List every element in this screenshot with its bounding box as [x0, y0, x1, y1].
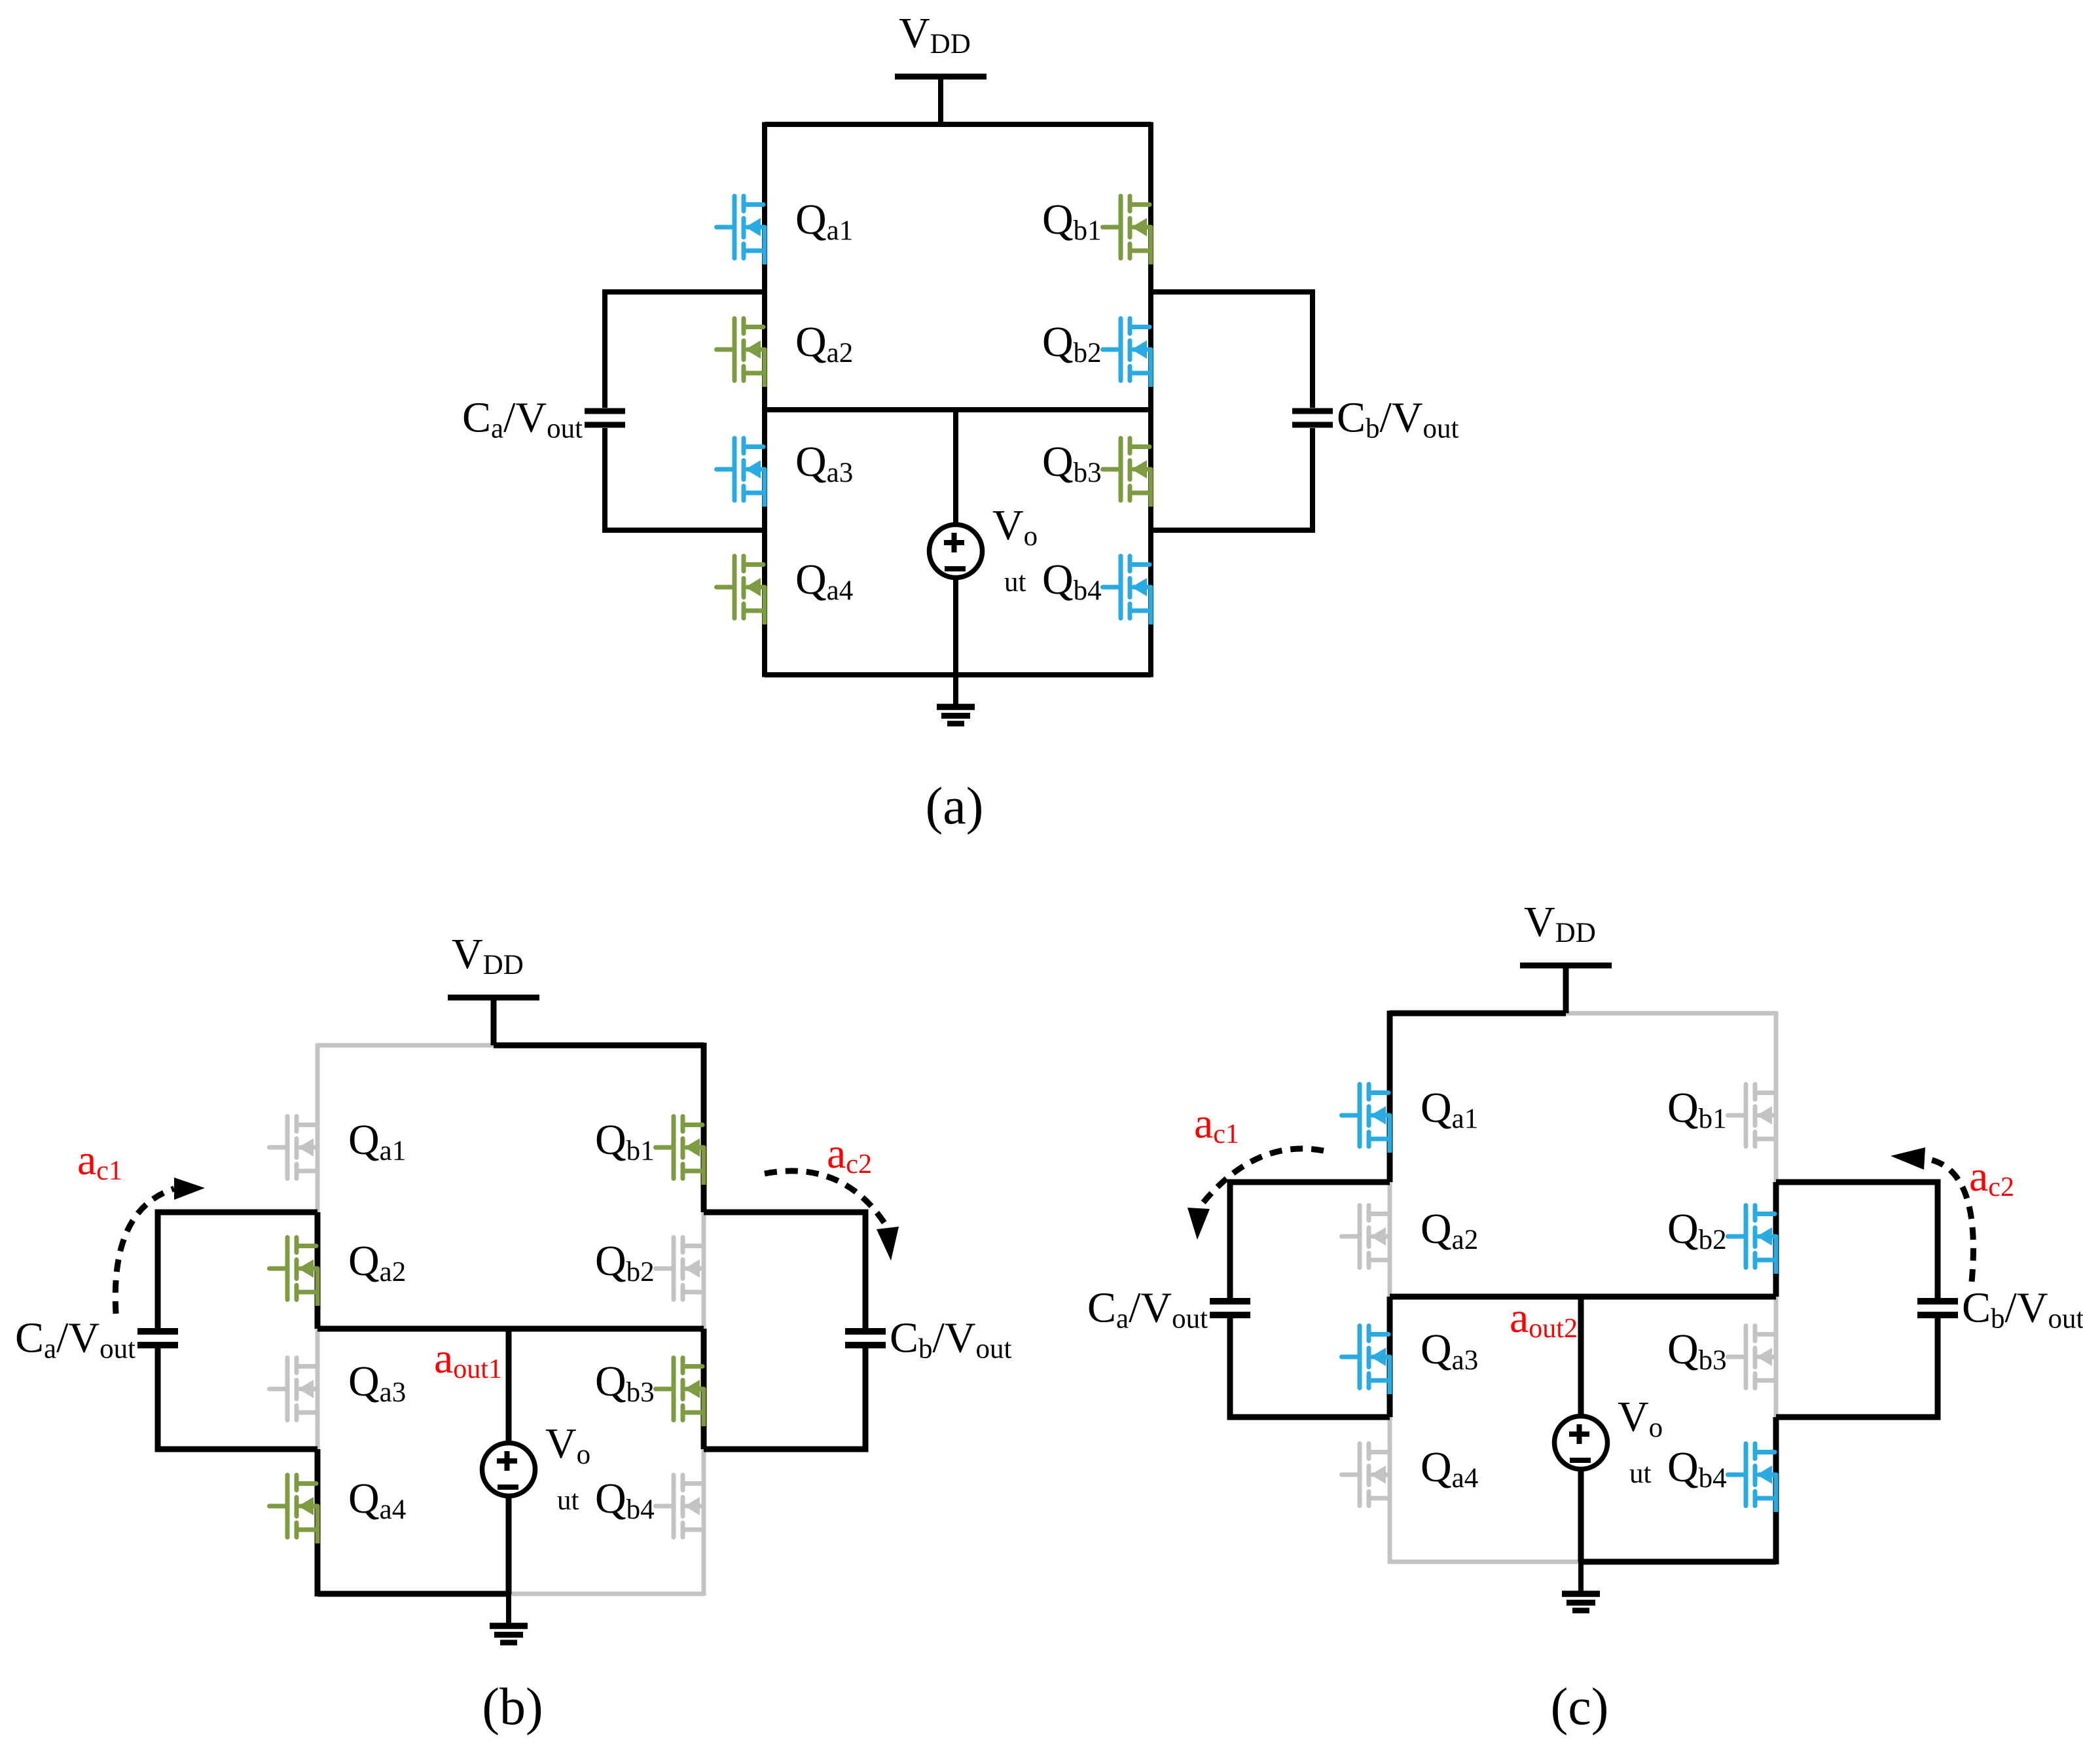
svg-text:ut: ut	[1629, 1458, 1652, 1489]
transistor Qa4	[717, 556, 765, 625]
wire top-left (a)	[765, 122, 941, 127]
wire bottom-right (a)	[956, 672, 1151, 677]
transistor Qa3	[1342, 1326, 1390, 1395]
wire left rail seg3 (c)	[1387, 1297, 1393, 1417]
wire left rail seg1 (b)	[316, 1043, 320, 1212]
transistor Qa2	[717, 319, 765, 387]
capacitor Cb (c)	[1917, 1182, 1958, 1417]
wire cap Cb lower link (b)	[704, 1447, 869, 1452]
wire right rail seg3 (a)	[1148, 410, 1153, 530]
transistor Qb2	[656, 1238, 704, 1306]
VDD supply	[448, 998, 539, 1045]
wire cap Ca upper link (c)	[1227, 1179, 1390, 1185]
wire right rail seg4 (a)	[1148, 530, 1153, 677]
ground	[937, 675, 975, 724]
wire right rail seg4 (b)	[702, 1449, 706, 1596]
wire left rail seg2 (b)	[315, 1212, 321, 1329]
wire left rail seg2 (a)	[762, 292, 767, 410]
wire top-right (c)	[1566, 1011, 1777, 1016]
svg-text:(b): (b)	[482, 1678, 543, 1736]
transistor Qb4	[656, 1475, 704, 1544]
ground	[1562, 1562, 1600, 1611]
transistor Qa4	[270, 1475, 318, 1544]
transistor Qa1	[1342, 1085, 1390, 1153]
wire cap Ca lower link (b)	[155, 1447, 318, 1452]
wire top-left (b)	[317, 1043, 494, 1048]
wire top-left (c)	[1390, 1011, 1567, 1017]
svg-text:ut: ut	[557, 1485, 579, 1516]
voltage source Vout (c)	[1555, 1297, 1608, 1562]
wire bottom-left (a)	[765, 672, 956, 677]
arrow ac1 (b)	[115, 1178, 205, 1314]
wire cap Cb upper link (c)	[1776, 1179, 1941, 1185]
transistor Qb3	[1103, 439, 1151, 507]
transistor Qb3	[656, 1358, 704, 1427]
transistor Qb1	[1728, 1085, 1777, 1153]
transistor Qb1	[1103, 196, 1151, 265]
transistor Qa4	[1342, 1444, 1390, 1513]
wire cap Cb upper link (a)	[1151, 289, 1315, 295]
transistor Qb4	[1728, 1444, 1777, 1513]
wire left rail seg4 (b)	[315, 1449, 321, 1596]
transistor Qa1	[270, 1117, 318, 1185]
arrow ac2 (c)	[1891, 1147, 1973, 1282]
wire top-right (b)	[494, 1043, 704, 1049]
wire right rail seg1 (b)	[701, 1043, 707, 1212]
wire mid node (a)	[765, 407, 1151, 412]
ground	[490, 1594, 528, 1643]
svg-text:ut: ut	[1004, 567, 1026, 598]
transistor Qa2	[270, 1238, 318, 1306]
wire right rail seg1 (a)	[1148, 122, 1153, 293]
wire top-right (a)	[941, 122, 1151, 127]
wire left rail seg3 (b)	[316, 1329, 320, 1449]
wire cap Ca lower link (c)	[1227, 1414, 1390, 1420]
arrow ac2 (b)	[765, 1171, 899, 1261]
wire cap Cb lower link (c)	[1776, 1414, 1941, 1420]
wire right rail seg4 (c)	[1773, 1417, 1779, 1564]
wire left rail seg4 (a)	[762, 530, 767, 677]
wire mid node (b)	[317, 1326, 704, 1332]
voltage source Vout (b)	[482, 1329, 535, 1594]
transistor Qa2	[1342, 1206, 1390, 1274]
wire right rail seg3 (c)	[1774, 1297, 1779, 1417]
arrow ac1 (c)	[1187, 1149, 1324, 1240]
transistor Qa3	[270, 1358, 318, 1427]
transistor Qa1	[717, 196, 765, 265]
wire bottom-right (b)	[509, 1592, 704, 1596]
wire mid node (c)	[1390, 1294, 1776, 1300]
wire cap Cb lower link (a)	[1151, 528, 1315, 533]
svg-text:(c): (c)	[1551, 1678, 1609, 1736]
wire cap Ca upper link (a)	[602, 289, 765, 295]
capacitor Ca (c)	[1210, 1182, 1250, 1417]
wire bottom-left (b)	[317, 1591, 509, 1597]
wire right rail seg2 (a)	[1148, 292, 1153, 410]
capacitor Cb (b)	[845, 1212, 886, 1449]
capacitor Cb (a)	[1292, 292, 1333, 530]
transistor Qb4	[1103, 556, 1151, 625]
transistor Qb2	[1728, 1206, 1777, 1274]
transistor Qb2	[1103, 319, 1151, 387]
capacitor Ca (a)	[585, 292, 625, 530]
transistor Qa3	[717, 439, 765, 507]
VDD supply	[1520, 965, 1612, 1013]
wire right rail seg2 (c)	[1773, 1182, 1779, 1297]
VDD supply	[895, 77, 987, 124]
wire right rail seg3 (b)	[701, 1329, 707, 1449]
wire bottom-left (c)	[1390, 1560, 1581, 1564]
wire right rail seg2 (b)	[702, 1212, 706, 1329]
svg-text:(a): (a)	[926, 778, 984, 835]
wire left rail seg4 (c)	[1388, 1417, 1392, 1564]
voltage source Vout (a)	[930, 410, 983, 675]
wire cap Ca upper link (b)	[155, 1210, 318, 1215]
wire cap Cb upper link (b)	[704, 1210, 869, 1215]
wire left rail seg3 (a)	[762, 410, 767, 530]
wire left rail seg1 (c)	[1387, 1011, 1393, 1182]
transistor Qb3	[1728, 1326, 1777, 1395]
transistor Qb1	[656, 1117, 704, 1185]
wire left rail seg2 (c)	[1388, 1182, 1392, 1297]
wire right rail seg1 (c)	[1774, 1011, 1779, 1182]
wire bottom-right (c)	[1581, 1559, 1776, 1565]
wire cap Ca lower link (a)	[602, 528, 765, 533]
capacitor Ca (b)	[137, 1212, 178, 1449]
wire left rail seg1 (a)	[762, 122, 767, 293]
